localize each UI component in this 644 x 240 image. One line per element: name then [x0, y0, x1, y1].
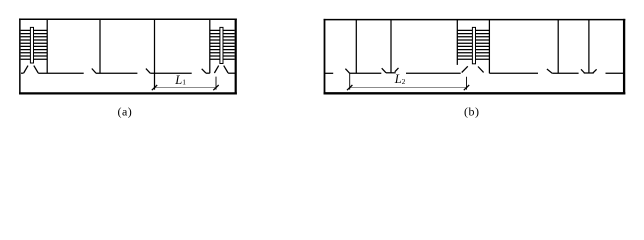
stair S2 center handrail bar — [220, 27, 223, 63]
figure (a) outer wall rectangle — [19, 18, 237, 94]
svg-text:(a): (a) — [117, 105, 132, 119]
stair S3 treads — [457, 30, 489, 59]
dimension L1 line — [155, 87, 217, 89]
dimension L2 right witness line — [466, 77, 468, 90]
dimension L2 left witness line — [349, 73, 351, 89]
stairwell S2 left wall (right stairwell of figure a) — [209, 19, 211, 73]
room divider wall V5 — [557, 20, 559, 74]
dimension L1 right witness line — [215, 77, 217, 90]
stair S3 center handrail bar — [472, 27, 475, 63]
svg-text:L1: L1 — [174, 73, 186, 87]
svg-text:L2: L2 — [394, 72, 406, 86]
stair S1 treads (left stairwell of figure a) — [21, 30, 48, 59]
stair S2 treads — [210, 30, 235, 59]
dimension L2 line — [350, 87, 467, 89]
stair S1 center handrail bar — [30, 27, 33, 63]
room door leaf D5 — [547, 69, 552, 73]
room divider wall V3 — [355, 20, 357, 74]
room divider wall V1 — [99, 19, 101, 73]
stairwell S3 double door leaves — [462, 66, 484, 72]
room door leaf D2 — [146, 69, 150, 74]
room divider wall V2 (also L1 left witness line) — [154, 19, 156, 89]
room divider wall V6 with paired doors — [581, 20, 597, 73]
svg-text:(b): (b) — [464, 105, 480, 119]
room door leaf D1 — [92, 69, 96, 74]
stairwell S3 right wall — [488, 20, 490, 74]
stairwell S2 double door leaves — [214, 66, 228, 73]
room divider wall V4 with paired doors — [382, 20, 399, 73]
dimension L1 tick marks — [152, 85, 219, 90]
stairwell S1 right wall — [46, 19, 48, 73]
room door leaf D4 — [345, 69, 349, 74]
corridor wall of figure b (with door gaps) — [325, 72, 625, 74]
corridor wall of figure a (with door gaps) — [21, 72, 236, 74]
room door leaf D3 — [202, 69, 206, 73]
stairwell S1 double door leaves — [24, 66, 39, 73]
figure (b) outer wall rectangle — [324, 19, 626, 95]
dimension L2 tick marks — [347, 85, 469, 90]
stairwell S3 left wall (figure b center stairwell) — [456, 20, 458, 65]
